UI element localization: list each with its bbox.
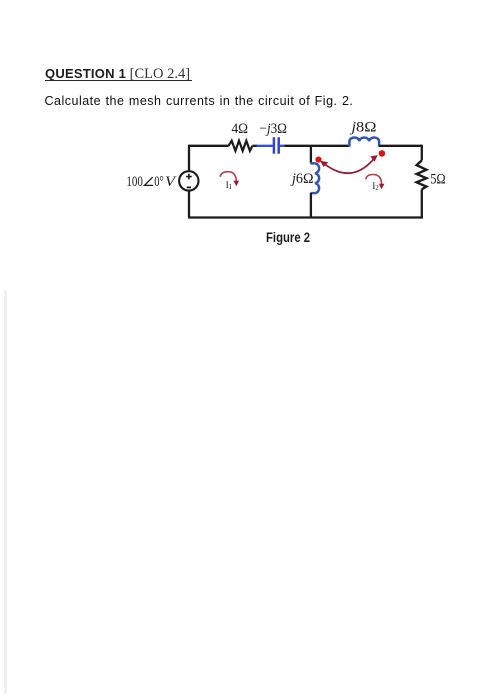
wire middle vertical upper (310, 146, 312, 164)
angle symbol (145, 177, 154, 185)
dot marker left (j6 top) (315, 157, 321, 163)
svg-text:0°: 0° (154, 174, 164, 190)
inductor L=j6ohm coil (310, 163, 319, 193)
title: QUESTION 1 [CLO 2.4] (45, 65, 190, 83)
mutual coupling arrow curve (325, 159, 374, 173)
svg-text:j6Ω: j6Ω (290, 171, 313, 187)
resistor R=5ohm zigzag (417, 160, 427, 189)
source plus sign (186, 174, 192, 180)
svg-text:I2: I2 (372, 182, 379, 192)
capacitor C=-j3ohm plates (274, 137, 279, 154)
svg-text:j8Ω: j8Ω (349, 119, 376, 135)
source V1 circle 100/_0 V (179, 171, 198, 190)
wire left vertical upper (188, 145, 190, 172)
title underline (45, 80, 192, 81)
svg-text:100: 100 (126, 174, 142, 190)
body text (45, 94, 354, 108)
faint left margin line (4, 290, 7, 694)
svg-text:4Ω: 4Ω (232, 121, 249, 137)
mesh current I1 arrowhead (234, 181, 240, 187)
coupling arrowhead right (370, 155, 377, 162)
source minus sign (187, 186, 191, 188)
wire right vertical upper (421, 145, 423, 161)
mesh current I2 arrowhead (379, 184, 385, 190)
svg-text:V: V (165, 174, 177, 190)
svg-text:I1: I1 (226, 181, 233, 191)
wire top-left horizontal (189, 145, 229, 147)
inductor L=j8ohm coil (349, 137, 379, 146)
wire middle vertical lower (310, 193, 312, 218)
capacitor C=-j3ohm leads (257, 145, 286, 147)
svg-text:−j3Ω: −j3Ω (260, 121, 288, 137)
resistor R=4ohm zigzag (229, 141, 253, 151)
mesh current I1 arrow arc (220, 172, 236, 182)
wire capacitor to node A (285, 145, 350, 147)
wire bottom horizontal (188, 216, 423, 218)
svg-text:5Ω: 5Ω (430, 172, 446, 188)
wire left vertical lower (188, 191, 190, 218)
wire j8 to top-right corner (379, 145, 422, 147)
wire resistor-to-capacitor (252, 145, 257, 147)
dot marker right (j8 right) (379, 150, 386, 157)
figure caption (266, 230, 310, 245)
coupling arrowhead left (320, 161, 328, 167)
mesh current I2 arrow arc (366, 174, 382, 184)
wire right vertical lower (421, 189, 423, 217)
